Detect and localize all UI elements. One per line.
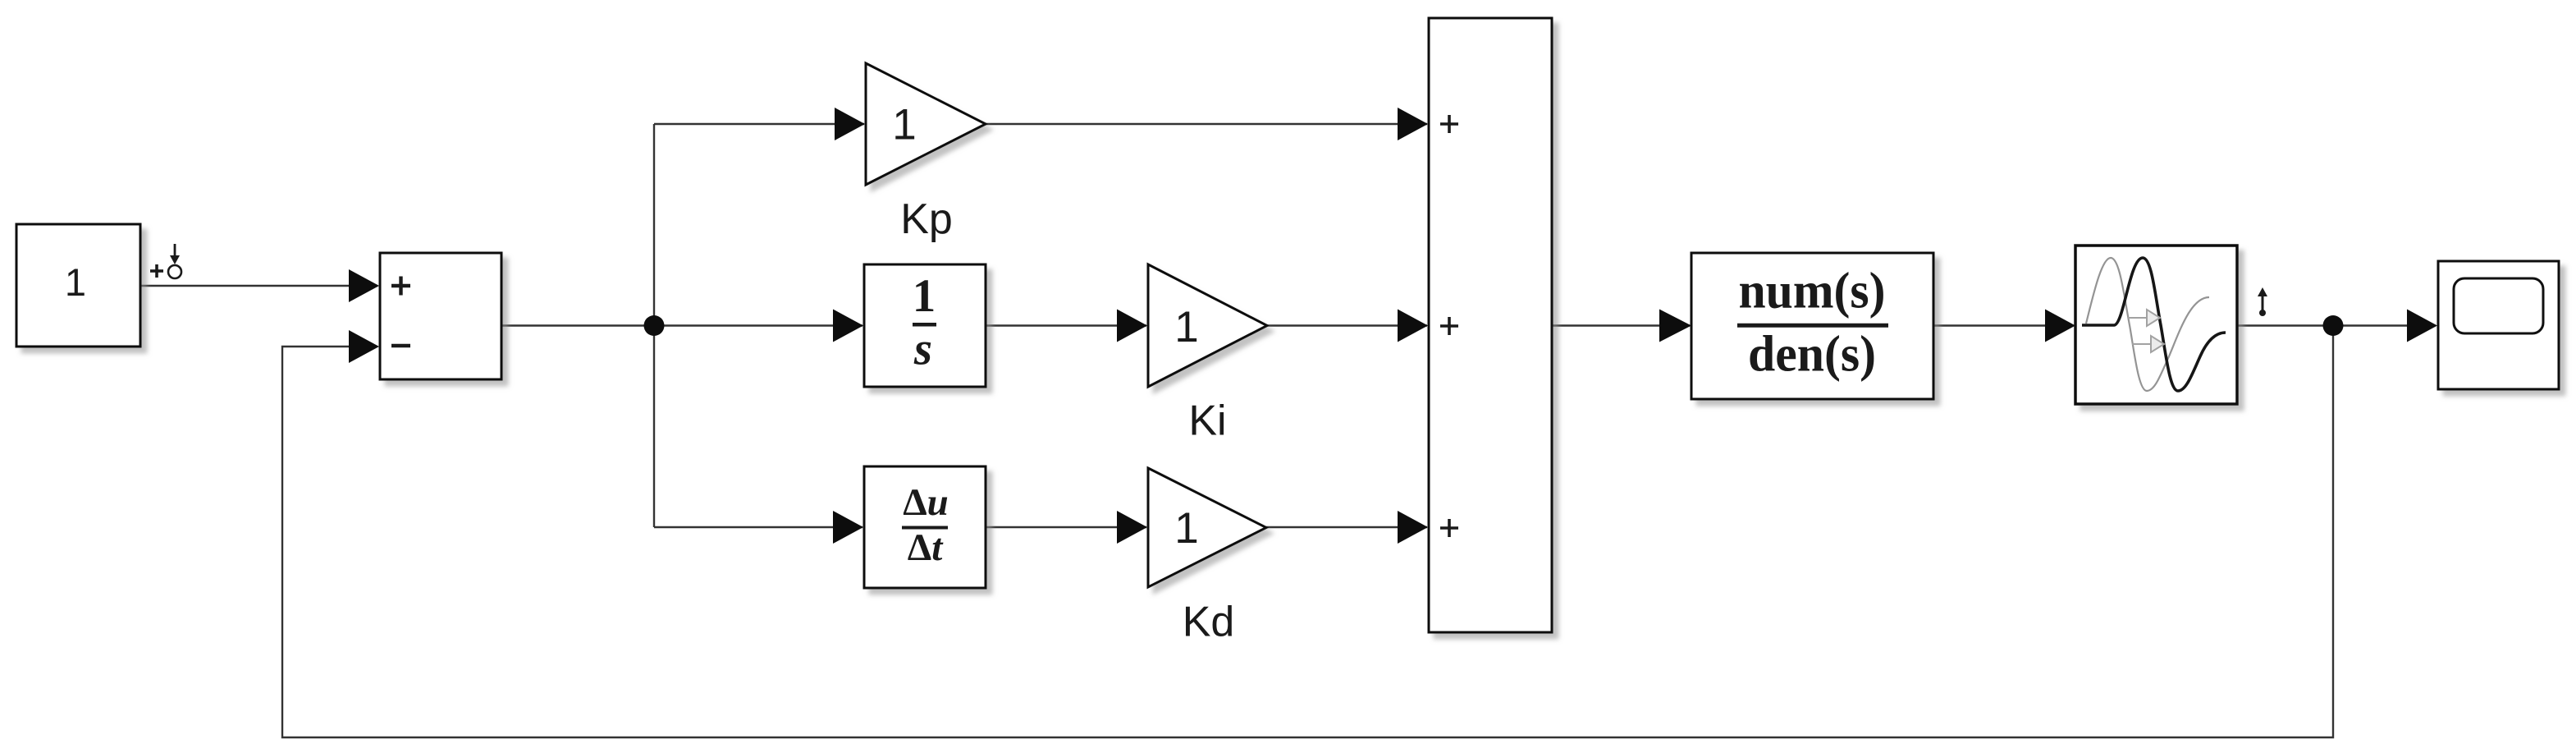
wire: Constant output to Sum plus input: [140, 285, 377, 287]
branch node after Sum: [644, 315, 665, 336]
constant block "1": [16, 224, 140, 347]
wire: Transfer Fcn output to Transport Delay: [1933, 324, 2073, 326]
integrator block 1/s: [864, 264, 986, 387]
adder block Add (tall): [1429, 18, 1552, 632]
wire: branch node to Scope: [2333, 324, 2436, 326]
wire: branch vertical trunk: [653, 124, 655, 527]
svg-text:1: 1: [1174, 303, 1198, 351]
scope block: [2438, 261, 2559, 389]
transport delay block: [2075, 246, 2237, 404]
gain triangle Ki: [1148, 264, 1267, 387]
arrowhead into Transport Delay: [2045, 310, 2075, 342]
wire: Ki output to Add middle input: [1267, 324, 1427, 326]
svg-text:Δt: Δt: [908, 526, 944, 569]
svg-text:Δu: Δu: [903, 481, 949, 524]
arrowhead into Add top input: [1398, 108, 1428, 140]
wire: branch to Delta block (bottom path): [654, 526, 862, 528]
arrowhead into Kd gain: [1117, 511, 1147, 544]
svg-text:den(s): den(s): [1748, 327, 1876, 383]
arrowhead into Integrator: [833, 310, 863, 342]
scope screen: [2454, 278, 2543, 333]
svg-text:num(s): num(s): [1739, 264, 1886, 319]
gain triangle Kd: [1148, 468, 1266, 587]
derivative block Delta u / Delta t: [864, 466, 986, 588]
arrowhead into Kp gain: [835, 108, 865, 140]
wire: Integrator output to Ki gain: [986, 324, 1146, 326]
arrowhead into Ki gain: [1117, 310, 1147, 342]
transport delay icon: shift arrows (gray): [2128, 310, 2164, 352]
transport delay icon: input sine (gray): [2086, 258, 2209, 391]
svg-text:Kd: Kd: [1183, 599, 1235, 646]
arrowhead into Sum plus input: [349, 269, 379, 302]
plus sign in Sum: [391, 277, 410, 296]
arrowhead into Add middle input: [1398, 310, 1428, 342]
transfer function block num(s)/den(s): [1691, 253, 1933, 399]
minus sign in Sum: [391, 344, 410, 348]
arrowhead into Delta u / Delta t block: [833, 511, 863, 544]
svg-text:Ki: Ki: [1188, 397, 1226, 445]
svg-text:1: 1: [1174, 504, 1198, 553]
svg-text:1: 1: [913, 270, 936, 322]
svg-text:s: s: [913, 324, 932, 375]
arrowhead into Add bottom input: [1398, 511, 1428, 544]
wire: Transport Delay output to scope branch node: [2237, 324, 2333, 326]
wire: feedback path: [282, 326, 2333, 738]
wire: branch to Kp gain (top path): [654, 123, 864, 125]
branch node before Scope: [2323, 315, 2344, 336]
arrowhead into Sum minus input: [349, 330, 379, 363]
svg-text:1: 1: [65, 260, 86, 304]
wire: Kd output to Add bottom input: [1266, 526, 1427, 528]
signal logging badge (+ circle with down arrow): [150, 244, 181, 278]
gain triangle Kp: [866, 63, 986, 185]
svg-text:1: 1: [892, 101, 916, 149]
test point marker (up arrow with dot): [2258, 287, 2267, 316]
plus sign middle in Add: [1440, 317, 1458, 335]
transport delay icon: delayed sine (black): [2082, 258, 2226, 391]
plus sign top in Add: [1440, 115, 1458, 133]
wire: Delta block output to Kd gain: [986, 526, 1146, 528]
wire: Add output to Transfer Fcn: [1552, 324, 1690, 326]
wire: branch to Integrator (middle path): [654, 324, 862, 326]
arrowhead into Transfer Fcn: [1659, 310, 1691, 342]
sum block Sum (+ -): [380, 253, 501, 379]
wire: Kp output to Add top input: [986, 123, 1427, 125]
plus sign bottom in Add: [1440, 519, 1458, 537]
svg-text:Kp: Kp: [900, 195, 953, 243]
wire: Sum output to branch node: [501, 324, 654, 326]
arrowhead into Scope: [2407, 310, 2437, 342]
